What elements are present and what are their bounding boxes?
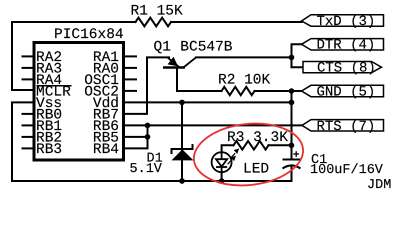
svg-text:RB4: RB4	[93, 142, 119, 158]
LED arrows	[228, 149, 239, 164]
pin RA2	[22, 55, 33, 57]
node DTR/CTS	[289, 55, 295, 61]
wire GND node vertical	[291, 91, 293, 160]
node R3/C1	[289, 143, 295, 149]
svg-text:LED: LED	[243, 162, 269, 178]
wire Vdd/D1 vertical	[181, 102, 183, 181]
resistor R3 3.3K body	[234, 141, 269, 150]
pin RB3	[22, 147, 33, 149]
connector flag GND (5)	[302, 84, 384, 100]
svg-text:Q1: Q1	[154, 40, 171, 56]
wire RB4 to bus	[125, 125, 148, 148]
connector flag RTS (7)	[302, 119, 384, 135]
wire RB5 to bus	[125, 136, 148, 138]
IC pin stubs	[22, 56, 138, 148]
wire Q1 base to R2	[177, 69, 222, 92]
capacitor C1	[283, 160, 301, 169]
wire RB6 to RTS	[125, 124, 302, 126]
pin RA3	[22, 67, 33, 69]
C1 plus sign	[293, 151, 299, 157]
pin RB2	[22, 136, 33, 138]
svg-text:RTS (7): RTS (7)	[317, 119, 376, 135]
svg-text:5.1V: 5.1V	[130, 162, 163, 177]
node Vdd/GND vertical	[289, 100, 295, 106]
resistor R1 15K body	[136, 18, 172, 27]
pin RB1	[22, 124, 33, 126]
wire Vss to ground rail	[12, 102, 292, 181]
node RB6 bus	[145, 123, 151, 129]
wire LED bottom lead	[221, 172, 223, 181]
IC U1 PIC16x84 body	[34, 43, 124, 161]
wire Q1 collector to DTR/CTS node	[196, 56, 292, 58]
node GND/R2	[289, 88, 295, 94]
red annotation ellipse	[191, 118, 306, 190]
pin RA1	[125, 55, 137, 57]
wire R2 to GND node and GND flag	[255, 90, 302, 92]
svg-text:BC547B: BC547B	[180, 40, 233, 56]
svg-text:100uF/16V: 100uF/16V	[310, 163, 384, 178]
transistor Q1	[163, 57, 196, 68]
pin OSC2	[125, 90, 137, 92]
node Vdd/D1	[179, 100, 185, 106]
svg-text:CTS (8): CTS (8)	[317, 60, 376, 76]
wire TxD flag to R1	[171, 21, 302, 23]
pin RA0	[125, 67, 137, 69]
svg-text:GND (5): GND (5)	[317, 84, 376, 100]
svg-text:R2 10K: R2 10K	[218, 73, 271, 89]
svg-text:R1 15K: R1 15K	[131, 4, 184, 20]
LED DL1	[212, 152, 232, 172]
connector flag CTS (8)	[303, 60, 382, 76]
svg-text:RB3: RB3	[36, 142, 62, 158]
pin OSC1	[125, 78, 137, 80]
svg-text:R3 3.3K: R3 3.3K	[227, 130, 288, 146]
wire RB7 to Q1 emitter	[125, 57, 169, 114]
wire DTR/CTS vertical	[292, 44, 304, 67]
wire R3 to C1 node	[269, 144, 292, 146]
connector flag DTR (4)	[302, 38, 384, 54]
wire R1 to MCLR pin	[12, 22, 136, 90]
node RB5 bus	[145, 134, 151, 140]
svg-text:TxD (3): TxD (3)	[317, 14, 376, 30]
wire Vdd row	[125, 101, 292, 103]
connector flag TxD (3)	[302, 14, 384, 30]
svg-text:PIC16x84: PIC16x84	[54, 27, 124, 43]
zener diode D1	[172, 144, 194, 160]
pin RB0	[22, 113, 33, 115]
node D1 ground	[179, 178, 185, 184]
wire C1 bottom to rail	[291, 167, 293, 181]
wire LED top to R3	[222, 145, 234, 152]
svg-text:JDM: JDM	[367, 178, 391, 193]
svg-text:DTR (4): DTR (4)	[317, 38, 376, 54]
resistor R2 10K body	[222, 87, 255, 95]
pin RA4	[22, 78, 33, 80]
node LED ground	[219, 178, 225, 184]
